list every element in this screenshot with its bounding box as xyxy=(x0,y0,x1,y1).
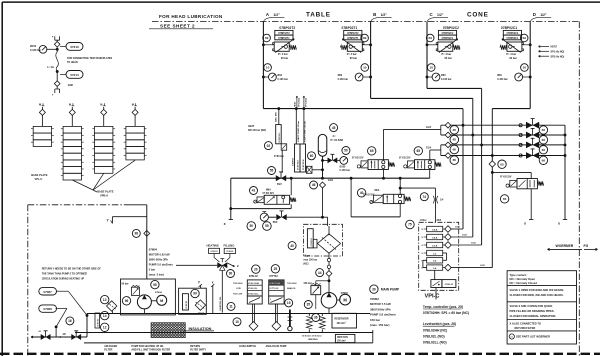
svg-text:65: 65 xyxy=(453,148,457,152)
directional valve 07KO22V #2 xyxy=(414,147,422,155)
pos 99 circle xyxy=(191,289,199,297)
svg-text:HEAT: HEAT xyxy=(248,125,255,128)
svg-text:10: 10 xyxy=(235,320,239,324)
return line gauge xyxy=(260,213,268,221)
coupling diamond row 2 xyxy=(445,132,451,138)
rail left corner down xyxy=(230,178,232,219)
svg-text:65: 65 xyxy=(453,128,457,132)
pos 40 circle filter xyxy=(288,242,296,250)
svg-text:SP2 (NO): SP2 (NO) xyxy=(305,98,307,107)
heating pump circle xyxy=(137,295,151,309)
VPI-C cartridge 1 xyxy=(427,226,443,231)
wire line D vertical xyxy=(529,22,531,109)
manifold row 4 wire xyxy=(441,155,565,157)
svg-text:M: M xyxy=(132,103,134,107)
wire air bleed column xyxy=(111,311,113,313)
main pump circle xyxy=(321,293,337,309)
svg-text:07.BV.02: 07.BV.02 xyxy=(97,319,99,326)
svg-text:M: M xyxy=(39,103,41,107)
svg-text:98: 98 xyxy=(135,232,139,236)
svg-text:G1/2: G1/2 xyxy=(471,243,477,245)
svg-text:07.B.02: 07.B.02 xyxy=(226,251,234,253)
svg-text:90 bar: 90 bar xyxy=(122,283,129,286)
directional valve 07KO32V (40) xyxy=(383,194,404,203)
svg-text:CONE: CONE xyxy=(467,12,489,19)
machine boundary dash-dot corner horizontal xyxy=(28,204,127,206)
pos 15 circle xyxy=(285,299,293,307)
svg-text:07BL02LL (NO): 07BL02LL (NO) xyxy=(423,340,447,344)
svg-text:G3/8: G3/8 xyxy=(68,84,74,87)
svg-text:07.BL.02.LL: 07.BL.02.LL xyxy=(248,294,259,296)
node D riser branch xyxy=(491,171,494,174)
pos 09 circle 07BP02T1 xyxy=(361,34,369,42)
VPI-C rows 5-6 bracket xyxy=(423,259,427,261)
svg-text:10 µm: 10 µm xyxy=(303,255,310,258)
return filter connection x left xyxy=(229,219,233,221)
svg-text:07087: 07087 xyxy=(43,290,52,294)
filter indicator 07.BF.02 xyxy=(307,229,313,248)
notes text part list xyxy=(509,334,514,339)
tag box 07.B.02 xyxy=(224,248,235,253)
relief valve 07BP02T1 xyxy=(347,42,362,51)
svg-text:5 bar: 5 bar xyxy=(149,268,155,272)
svg-text:BV3: BV3 xyxy=(273,221,278,224)
svg-text:SP1 (NO): SP1 (NO) xyxy=(299,98,301,107)
svg-text:90: 90 xyxy=(229,272,233,276)
tag oval 07213 xyxy=(66,43,83,51)
temp sensor symbol box xyxy=(269,296,284,304)
svg-text:FILTER: FILTER xyxy=(104,349,112,352)
wire heating feed from column xyxy=(146,236,148,265)
return filter enclosure xyxy=(304,224,343,256)
svg-text:07BL02: 07BL02 xyxy=(249,275,259,278)
pos 10 circle 07BP02T1 xyxy=(361,64,369,72)
svg-text:90 bar: 90 bar xyxy=(281,57,288,60)
wire valve drains xyxy=(383,170,385,179)
pos 16 circle xyxy=(66,317,74,325)
wire Y to column xyxy=(112,216,146,218)
svg-text:07BL02HH (NC): 07BL02HH (NC) xyxy=(423,328,447,332)
svg-text:HEAT: HEAT xyxy=(551,46,558,49)
svg-text:FOR HEAD LUBRICATION: FOR HEAD LUBRICATION xyxy=(159,14,223,19)
wire stack drain to accumulator column xyxy=(312,169,323,171)
wire to VPI-C feed xyxy=(400,187,435,189)
base plate VPL-C stack xyxy=(33,126,51,133)
return shutoff valve G1/2 xyxy=(268,216,276,218)
svg-text:66: 66 xyxy=(542,158,546,162)
notes box xyxy=(507,271,576,344)
svg-text:M6A: M6A xyxy=(375,189,380,192)
pressure rail horizontal xyxy=(231,177,430,179)
reservoir box xyxy=(332,313,357,328)
svg-text:SP2 (4x NO): SP2 (4x NO) xyxy=(551,55,565,58)
svg-text:SEE SHEET 2: SEE SHEET 2 xyxy=(160,24,195,29)
pos 55 circle return xyxy=(263,222,272,231)
svg-text:07.BL.02.L: 07.BL.02.L xyxy=(248,288,258,290)
wire valve41 pressure riser xyxy=(290,178,292,195)
svg-text:40: 40 xyxy=(290,244,294,248)
pos 30 circle main pump xyxy=(370,285,378,293)
pos 41 circle xyxy=(250,187,258,195)
tag oval 07088 xyxy=(39,305,57,312)
pos 44 circle xyxy=(316,269,324,277)
svg-text:07.BP.02.W: 07.BP.02.W xyxy=(303,159,305,170)
directional valve 07KO32V (41) xyxy=(264,195,289,204)
svg-text:(NC): (NC) xyxy=(303,263,308,266)
svg-text:HEATING: HEATING xyxy=(207,244,219,248)
pos 09 circle 07BP02C2 xyxy=(426,34,434,42)
svg-text:07BL02L (NO): 07BL02L (NO) xyxy=(423,334,445,338)
wire gauge to test column xyxy=(47,48,57,50)
wire valve40 bypass loop xyxy=(399,204,401,217)
pos 95 circle xyxy=(151,280,159,288)
VPI-C outlet diamond row3 xyxy=(445,242,452,249)
svg-text:AND FILL UNIT THROUGH FILTER: AND FILL UNIT THROUGH FILTER xyxy=(131,349,170,352)
wire line A vertical xyxy=(262,22,264,109)
svg-text:P= 4 bar: P= 4 bar xyxy=(506,53,516,56)
pos 65 circle row 3 xyxy=(450,145,459,154)
bottom sheet-cut dashed line xyxy=(0,353,600,355)
svg-text:G1/2: G1/2 xyxy=(455,227,461,229)
svg-text:Ø63: Ø63 xyxy=(497,74,502,77)
tag boxes 07BP02C2 xyxy=(438,30,456,35)
svg-text:150 bar: 150 bar xyxy=(303,282,311,285)
coupling diamond D riser xyxy=(489,161,495,167)
wire drain to tank wall xyxy=(86,314,88,338)
svg-text:G1/2: G1/2 xyxy=(462,235,468,237)
pos 10 circle 07BP02T2 xyxy=(264,64,272,72)
svg-text:VPB-A: VPB-A xyxy=(100,194,108,198)
node test column lower xyxy=(56,70,59,73)
svg-text:1.50cc: 1.50cc xyxy=(420,220,428,222)
svg-text:74: 74 xyxy=(423,195,427,199)
svg-text:P= 81 BAR: P= 81 BAR xyxy=(331,139,344,142)
node riser D row4 xyxy=(491,154,494,157)
VPI-C outlet diamond row1 xyxy=(445,226,452,233)
manifold drain right vertical xyxy=(564,125,566,219)
svg-text:400 dm: 400 dm xyxy=(337,322,345,325)
manifold row 2 wire xyxy=(441,134,565,136)
quick coupling lower xyxy=(54,81,60,87)
svg-text:10: 10 xyxy=(363,66,367,70)
svg-text:FG: FG xyxy=(584,244,589,248)
VPI-C cartridge 4 xyxy=(427,250,443,255)
pos 02 circle xyxy=(264,142,272,150)
svg-text:99: 99 xyxy=(193,292,197,296)
tag oval 07214 xyxy=(66,71,83,79)
svg-text:250 dm: 250 dm xyxy=(337,341,345,343)
svg-text:13: 13 xyxy=(103,298,107,302)
svg-text:CLOSED FOR NORMAL OPERATION.: CLOSED FOR NORMAL OPERATION. xyxy=(510,314,557,318)
svg-text:HEAT: HEAT xyxy=(293,101,296,107)
switch stack drain fitting xyxy=(306,166,312,173)
svg-text:07BP02C1: 07BP02C1 xyxy=(442,37,454,40)
pos 50 circle return xyxy=(247,222,256,231)
svg-text:Ø63: Ø63 xyxy=(277,74,282,77)
svg-text:09: 09 xyxy=(363,36,367,40)
svg-text:07.B.01: 07.B.01 xyxy=(211,251,219,253)
base plate VPB-A stack 4 xyxy=(126,126,144,133)
pressure gauge 07BP02T1 xyxy=(355,73,363,81)
svg-text:LOW: LOW xyxy=(236,288,241,290)
pos 45 circle accumulator xyxy=(330,124,338,132)
svg-text:ANALOGUE TEMP: ANALOGUE TEMP xyxy=(266,345,287,348)
svg-text:66: 66 xyxy=(542,148,546,152)
svg-text:65: 65 xyxy=(453,158,457,162)
svg-text:P= 4 bar: P= 4 bar xyxy=(347,53,357,56)
svg-text:65: 65 xyxy=(370,149,374,153)
wire switch columns xyxy=(295,109,297,144)
VPI-C outlet diamond row6 xyxy=(445,264,452,271)
main motor circle xyxy=(340,294,351,305)
svg-text:10: 10 xyxy=(429,66,433,70)
svg-text:07BP02T2: 07BP02T2 xyxy=(279,26,295,30)
svg-text:36: 36 xyxy=(314,316,318,320)
rail shutoff valve G1/2 xyxy=(276,175,286,181)
svg-text:Ø100: Ø100 xyxy=(340,165,347,168)
svg-text:09: 09 xyxy=(265,36,269,40)
svg-text:PIPE FILLING OR DRAINING PIPES: PIPE FILLING OR DRAINING PIPES. xyxy=(510,309,555,313)
svg-text:1/2": 1/2" xyxy=(540,13,547,17)
svg-text:Z: Z xyxy=(237,264,239,268)
svg-text:07M02: 07M02 xyxy=(370,297,379,301)
svg-text:Temp. controller (pos. 25): Temp. controller (pos. 25) xyxy=(423,305,463,309)
svg-text:02: 02 xyxy=(267,144,271,148)
riser D to manifold xyxy=(491,109,493,268)
svg-text:10: 10 xyxy=(266,66,270,70)
svg-text:(max. 150 bar): (max. 150 bar) xyxy=(370,323,389,327)
svg-text:BASE PLATE: BASE PLATE xyxy=(97,190,114,194)
svg-text:07.BP.02.L: 07.BP.02.L xyxy=(279,132,281,143)
svg-text:1/2": 1/2" xyxy=(273,13,280,17)
pos 40 circle xyxy=(357,189,365,197)
machine boundary dash-dot right (WOERNER side) xyxy=(578,22,580,356)
port Z arrow xyxy=(227,263,234,267)
hose flexible section xyxy=(56,52,59,72)
svg-text:PUMP FOR HEATING UP OIL: PUMP FOR HEATING UP OIL xyxy=(131,345,164,348)
pos 66 circle row 3 xyxy=(539,146,547,154)
pos 66 circle row 4 xyxy=(539,156,547,164)
fill valve G1 xyxy=(71,334,81,340)
svg-text:TABLE: TABLE xyxy=(306,12,331,19)
svg-text:PUMP 2.8 dm3/min: PUMP 2.8 dm3/min xyxy=(370,313,396,317)
svg-text:P= 4 bar: P= 4 bar xyxy=(442,53,452,56)
pos 09 circle 07BP02T2 xyxy=(263,34,271,42)
svg-text:RETURN: RETURN xyxy=(190,345,200,348)
pos 98 circle xyxy=(132,229,140,237)
pilot pressure switch 07.BP.02.L xyxy=(276,125,282,144)
wire drain drop to valve 40 xyxy=(399,178,401,194)
pos 60 circle xyxy=(308,152,316,160)
svg-text:WOERNER: WOERNER xyxy=(556,244,574,248)
wire filling ports xyxy=(213,254,215,258)
drawing border top xyxy=(2,1,600,3)
wire rail diamond 46 column xyxy=(320,182,326,188)
air bleed filter diamond xyxy=(107,301,117,311)
wire filter to pump column xyxy=(328,253,330,258)
node SP stubs xyxy=(295,107,298,110)
svg-text:CIRCULATION DURING HEATING UP: CIRCULATION DURING HEATING UP xyxy=(42,277,85,280)
VPI-C cartridge 5 xyxy=(427,258,443,263)
svg-text:07BT02HH: SP1 = 60 bar (NC): 07BT02HH: SP1 = 60 bar (NC) xyxy=(423,311,469,315)
svg-text:30/4: 30/4 xyxy=(437,219,442,222)
relief valve 07BP02C1 xyxy=(507,42,522,51)
svg-text:60: 60 xyxy=(310,154,314,158)
svg-text:07BP02C2: 07BP02C2 xyxy=(443,26,459,30)
stub SP1 signal xyxy=(296,96,298,109)
coupling diamond row 1 xyxy=(445,122,451,128)
svg-text:TOO LOW: TOO LOW xyxy=(233,294,242,296)
filter element diamond xyxy=(328,243,330,245)
svg-text:55: 55 xyxy=(270,169,274,173)
pos 10 circle 07BP02C2 xyxy=(427,64,435,72)
svg-text:0-160 bar: 0-160 bar xyxy=(340,169,351,172)
svg-text:07BP02T1: 07BP02T1 xyxy=(342,26,358,30)
svg-text:X ALSO CONNECTED TO: X ALSO CONNECTED TO xyxy=(510,322,542,326)
tag boxes 07BP02C1 xyxy=(503,30,521,35)
wire valve to gauge xyxy=(337,159,340,161)
svg-text:MOTOR 7.5 kW: MOTOR 7.5 kW xyxy=(370,302,391,306)
svg-text:07 KO 23V: 07 KO 23V xyxy=(500,176,512,178)
svg-text:G1/4: G1/4 xyxy=(426,146,432,149)
tank top line xyxy=(87,313,370,315)
svg-text:11: 11 xyxy=(229,305,233,309)
svg-text:MAIN PUMP: MAIN PUMP xyxy=(381,288,400,292)
svg-text:CLOSED FOR Ø600, 800 AND 1000: CLOSED FOR Ø600, 800 AND 1000 HEADS. xyxy=(510,293,564,297)
pos 12 circle xyxy=(101,323,109,331)
svg-text:10: 10 xyxy=(523,66,527,70)
svg-text:G1/2: G1/2 xyxy=(480,265,486,267)
wire line C vertical xyxy=(426,22,428,89)
wire bus D horizontal xyxy=(492,108,530,110)
VPI-C cartridge 2 xyxy=(427,234,443,239)
svg-text:65: 65 xyxy=(453,138,457,142)
svg-text:FOR CONNECTING TEST-BASEPLATES: FOR CONNECTING TEST-BASEPLATES xyxy=(67,57,113,60)
svg-text:x: x xyxy=(212,281,214,285)
temp sensor stem xyxy=(275,304,277,323)
VPI-C rows 4-5 bracket xyxy=(443,252,447,254)
thermometer xyxy=(289,310,291,327)
svg-text:07.E.02.1 07.E.02.2: 07.E.02.1 07.E.02.2 xyxy=(302,335,322,337)
pos 90 circle xyxy=(227,270,235,278)
svg-text:AIR-BLEED: AIR-BLEED xyxy=(104,345,117,348)
svg-text:65: 65 xyxy=(417,149,421,153)
drain line bottom xyxy=(31,336,40,338)
svg-text:M: M xyxy=(100,103,102,107)
wire valve41 tank port xyxy=(290,204,292,208)
svg-text:0.3.B: 0.3.B xyxy=(432,245,438,247)
VPI-C outlet diamond row2 xyxy=(445,234,452,241)
pos 14 circle xyxy=(101,311,109,319)
tag boxes 07BP02T1 xyxy=(344,30,362,35)
svg-text:B: B xyxy=(373,12,376,17)
svg-text:START PUMP 90 bar: START PUMP 90 bar xyxy=(297,121,300,142)
svg-text:09: 09 xyxy=(428,36,432,40)
pos 65 circle 07KO23V xyxy=(500,195,508,203)
return filter group box xyxy=(179,288,207,314)
svg-text:07TT02: 07TT02 xyxy=(269,275,278,278)
svg-text:45: 45 xyxy=(332,126,336,130)
relief valve 07BP02T2 xyxy=(274,42,289,51)
pressure gauge 07BP02C1 xyxy=(515,73,523,81)
level switch stem xyxy=(252,304,254,323)
svg-text:12: 12 xyxy=(103,325,107,329)
pos 66 circle row 2 xyxy=(539,136,547,144)
svg-text:07M04: 07M04 xyxy=(149,248,158,252)
svg-text:90 bar: 90 bar xyxy=(445,57,452,60)
svg-text:30: 30 xyxy=(372,287,376,291)
svg-text:RETURN FILTER: RETURN FILTER xyxy=(515,326,536,330)
accumulator isolation valve xyxy=(323,159,328,161)
plugged coupling top xyxy=(55,36,60,40)
pos 75 circle xyxy=(406,220,415,229)
node riser A row1 xyxy=(462,124,465,127)
node test column upper xyxy=(56,48,59,51)
wire coupling to pump xyxy=(328,276,330,292)
svg-text:SEE PART LIST WOERNER: SEE PART LIST WOERNER xyxy=(516,335,550,339)
svg-text:RETURN Y NEEDS TO BE ON THE OT: RETURN Y NEEDS TO BE ON THE OTHER SIDE O… xyxy=(42,267,102,270)
svg-text:TO HEAD: TO HEAD xyxy=(67,61,78,64)
svg-text:M: M xyxy=(343,297,347,302)
heater 07.E.02.2 xyxy=(321,314,323,317)
svg-text:07BP02T1: 07BP02T1 xyxy=(347,37,359,40)
svg-text:BV2: BV2 xyxy=(277,183,282,186)
svg-text:07088: 07088 xyxy=(43,307,52,311)
reservoir drain to drip pan xyxy=(372,330,374,343)
pos 09 circle 07BP02C1 xyxy=(520,34,528,42)
wire below VPI-C xyxy=(435,288,437,300)
svg-text:35: 35 xyxy=(307,303,311,307)
pos 35 circle xyxy=(304,301,312,309)
svg-text:HEATING OIL: HEATING OIL xyxy=(219,296,222,311)
svg-text:RESERVOIR: RESERVOIR xyxy=(335,318,349,321)
svg-text:Ø63: Ø63 xyxy=(338,74,343,77)
svg-text:VPL-C: VPL-C xyxy=(35,177,43,181)
svg-text:Levelswitch (pos. 28): Levelswitch (pos. 28) xyxy=(423,322,456,326)
wire accumulator stem xyxy=(322,156,324,178)
air bleed indicator xyxy=(95,313,100,328)
node 07BP02T2 tap xyxy=(262,43,265,46)
svg-text:VALVE 2 AND 3 OPEN FOR QUICK: VALVE 2 AND 3 OPEN FOR QUICK xyxy=(510,304,553,308)
wire 07088 leader xyxy=(56,307,67,309)
svg-text:ANALOG: ANALOG xyxy=(287,287,296,290)
pos 50 circle accumulator gauge xyxy=(342,147,350,155)
heating motor circle xyxy=(157,295,167,305)
manifold row 1 wire xyxy=(441,124,565,126)
svg-text:07.BL.03: 07.BL.03 xyxy=(445,284,454,286)
svg-text:0-160 bar: 0-160 bar xyxy=(338,78,349,81)
svg-text:95: 95 xyxy=(153,283,157,287)
valve 07KO23V drain xyxy=(530,189,532,220)
svg-text:DRIP PAN: DRIP PAN xyxy=(337,336,348,339)
svg-text:D: D xyxy=(533,12,536,17)
svg-text:07BP02C1: 07BP02C1 xyxy=(507,37,519,40)
level sensor well xyxy=(249,322,258,331)
heating pump suction xyxy=(143,309,145,313)
wire pilot to rail xyxy=(281,150,283,173)
directional valve 07KO23V xyxy=(517,179,537,189)
svg-text:3: 3 xyxy=(345,322,346,324)
svg-text:(max. 5 bar): (max. 5 bar) xyxy=(149,273,164,277)
VPI-C cartridge 3 xyxy=(427,242,443,247)
machine boundary dash-dot top xyxy=(152,21,579,23)
svg-text:0.4.B: 0.4.B xyxy=(432,236,438,239)
svg-text:07.TT.6.02: 07.TT.6.02 xyxy=(269,288,278,290)
svg-text:07.BP.03: 07.BP.03 xyxy=(311,237,313,246)
svg-text:07BP02C1: 07BP02C1 xyxy=(501,26,517,30)
svg-text:ABS. MIN: ABS. MIN xyxy=(275,112,278,122)
pos 13 circle xyxy=(101,295,109,303)
